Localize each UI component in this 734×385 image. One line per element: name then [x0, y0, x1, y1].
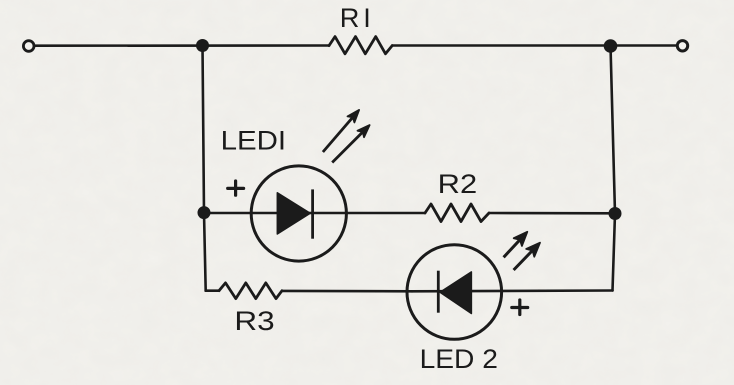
wire top rail right segment — [392, 44, 676, 47]
resistor R3 — [219, 283, 282, 299]
LED2 light arrow 1 — [504, 232, 528, 257]
wire left vertical — [203, 46, 206, 291]
node top-left junction — [196, 39, 209, 52]
node middle-left junction — [198, 206, 211, 219]
LED2 diode triangle — [440, 272, 471, 314]
wire top rail left segment — [36, 44, 330, 47]
LED1 cathode bar — [311, 189, 314, 238]
terminal right — [677, 41, 687, 51]
resistor R2 — [425, 204, 489, 222]
resistor R1 — [329, 37, 392, 54]
LED2 anode bar — [437, 271, 440, 313]
node middle-right junction — [609, 207, 622, 220]
svg-text:LED 2: LED 2 — [420, 343, 498, 374]
LED1 diode triangle — [277, 193, 310, 234]
node top-right junction — [604, 39, 618, 53]
wire middle rail right of R2 — [489, 212, 615, 215]
wire right vertical — [611, 46, 616, 291]
terminal left — [23, 41, 34, 52]
svg-text:R: R — [340, 2, 360, 33]
LED1 light arrow 2 — [332, 125, 369, 162]
wire middle rail — [204, 212, 425, 215]
LED1 circle — [251, 166, 346, 261]
LED1 plus sign — [228, 181, 244, 195]
LED2 circle — [407, 245, 502, 340]
svg-text:LEDI: LEDI — [221, 124, 287, 155]
LED1 light arrow 1 — [323, 110, 359, 152]
svg-text:R3: R3 — [234, 305, 274, 336]
wire bottom rail left — [206, 289, 219, 292]
LED2 light arrow 2 — [514, 243, 540, 270]
svg-text:R2: R2 — [438, 168, 478, 199]
wire bottom rail through LED2 and right — [412, 289, 613, 292]
LED2 plus sign — [512, 300, 528, 315]
svg-text:I: I — [363, 2, 371, 33]
wire bottom rail middle — [282, 290, 412, 293]
